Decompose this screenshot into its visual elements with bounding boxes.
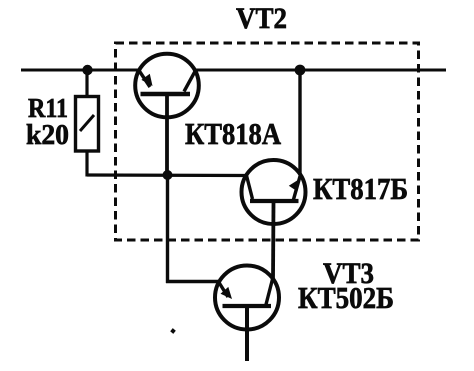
svg-text:R11: R11 [28, 93, 68, 123]
wire: base node down left side [166, 175, 169, 283]
wire: top rail right segment [195, 69, 446, 72]
wire: KT817B center lead down to VT3 [271, 202, 275, 280]
svg-text:k20: k20 [26, 120, 69, 151]
transistor VT2b KT817B emitter arrow (NPN, outward) [289, 179, 300, 192]
transistor VT3 KT502B emitter arrow (PNP, toward base) [221, 287, 233, 299]
svg-text:VT2: VT2 [236, 2, 287, 35]
transistor VT3 KT502B emitter slant [219, 283, 228, 298]
node: junction dot base node [163, 170, 173, 180]
svg-text:КТ817Б: КТ817Б [313, 171, 408, 206]
speck: small scan dot near VT3 [170, 328, 176, 334]
transistor VT3 KT502B collector slant [266, 278, 273, 305]
transistor VT2b KT817B base bar [250, 199, 299, 203]
transistor VT2a KT818A emitter arrow (PNP, toward base) [141, 74, 152, 86]
transistor VT2a KT818A emitter slant [139, 71, 150, 88]
dashed box around composite transistor VT2 [116, 43, 419, 240]
transistor VT3 KT502B circle [215, 266, 279, 330]
resistor R11 body [76, 97, 99, 152]
transistor VT2a KT818A base bar [141, 92, 191, 97]
wire: rail down to R11 top [85, 70, 88, 97]
transistor VT3 KT502B base bar [223, 304, 272, 308]
transistor VT2b KT817B collector slant [247, 176, 253, 200]
wire: horizontal into VT3 emitter [166, 280, 220, 283]
wire: rail junction down to KT817 emitter [298, 70, 301, 175]
transistor VT2a KT818A collector slant [184, 71, 196, 92]
transistor VT2b KT817B emitter slant [294, 175, 301, 200]
wire: R11 bottom down [85, 151, 88, 177]
svg-text:КТ502Б: КТ502Б [298, 280, 394, 315]
transistor VT2a KT818A base lead [165, 95, 169, 175]
transistor VT2b KT817B circle [242, 160, 306, 224]
wire: horizontal from R11 bottom to VT2 base node and on to KT817 base [87, 173, 247, 177]
node: junction dot at rail / VT2 emitter branch [295, 65, 306, 76]
wire: top rail left segment [21, 69, 140, 72]
node: junction dot at rail / R11 [82, 65, 92, 75]
resistor R11 diagonal mark [80, 115, 94, 131]
transistor VT2a KT818A circle [135, 54, 199, 118]
svg-text:КТ818А: КТ818А [185, 116, 282, 151]
transistor VT3 KT502B base lead down [245, 307, 249, 361]
